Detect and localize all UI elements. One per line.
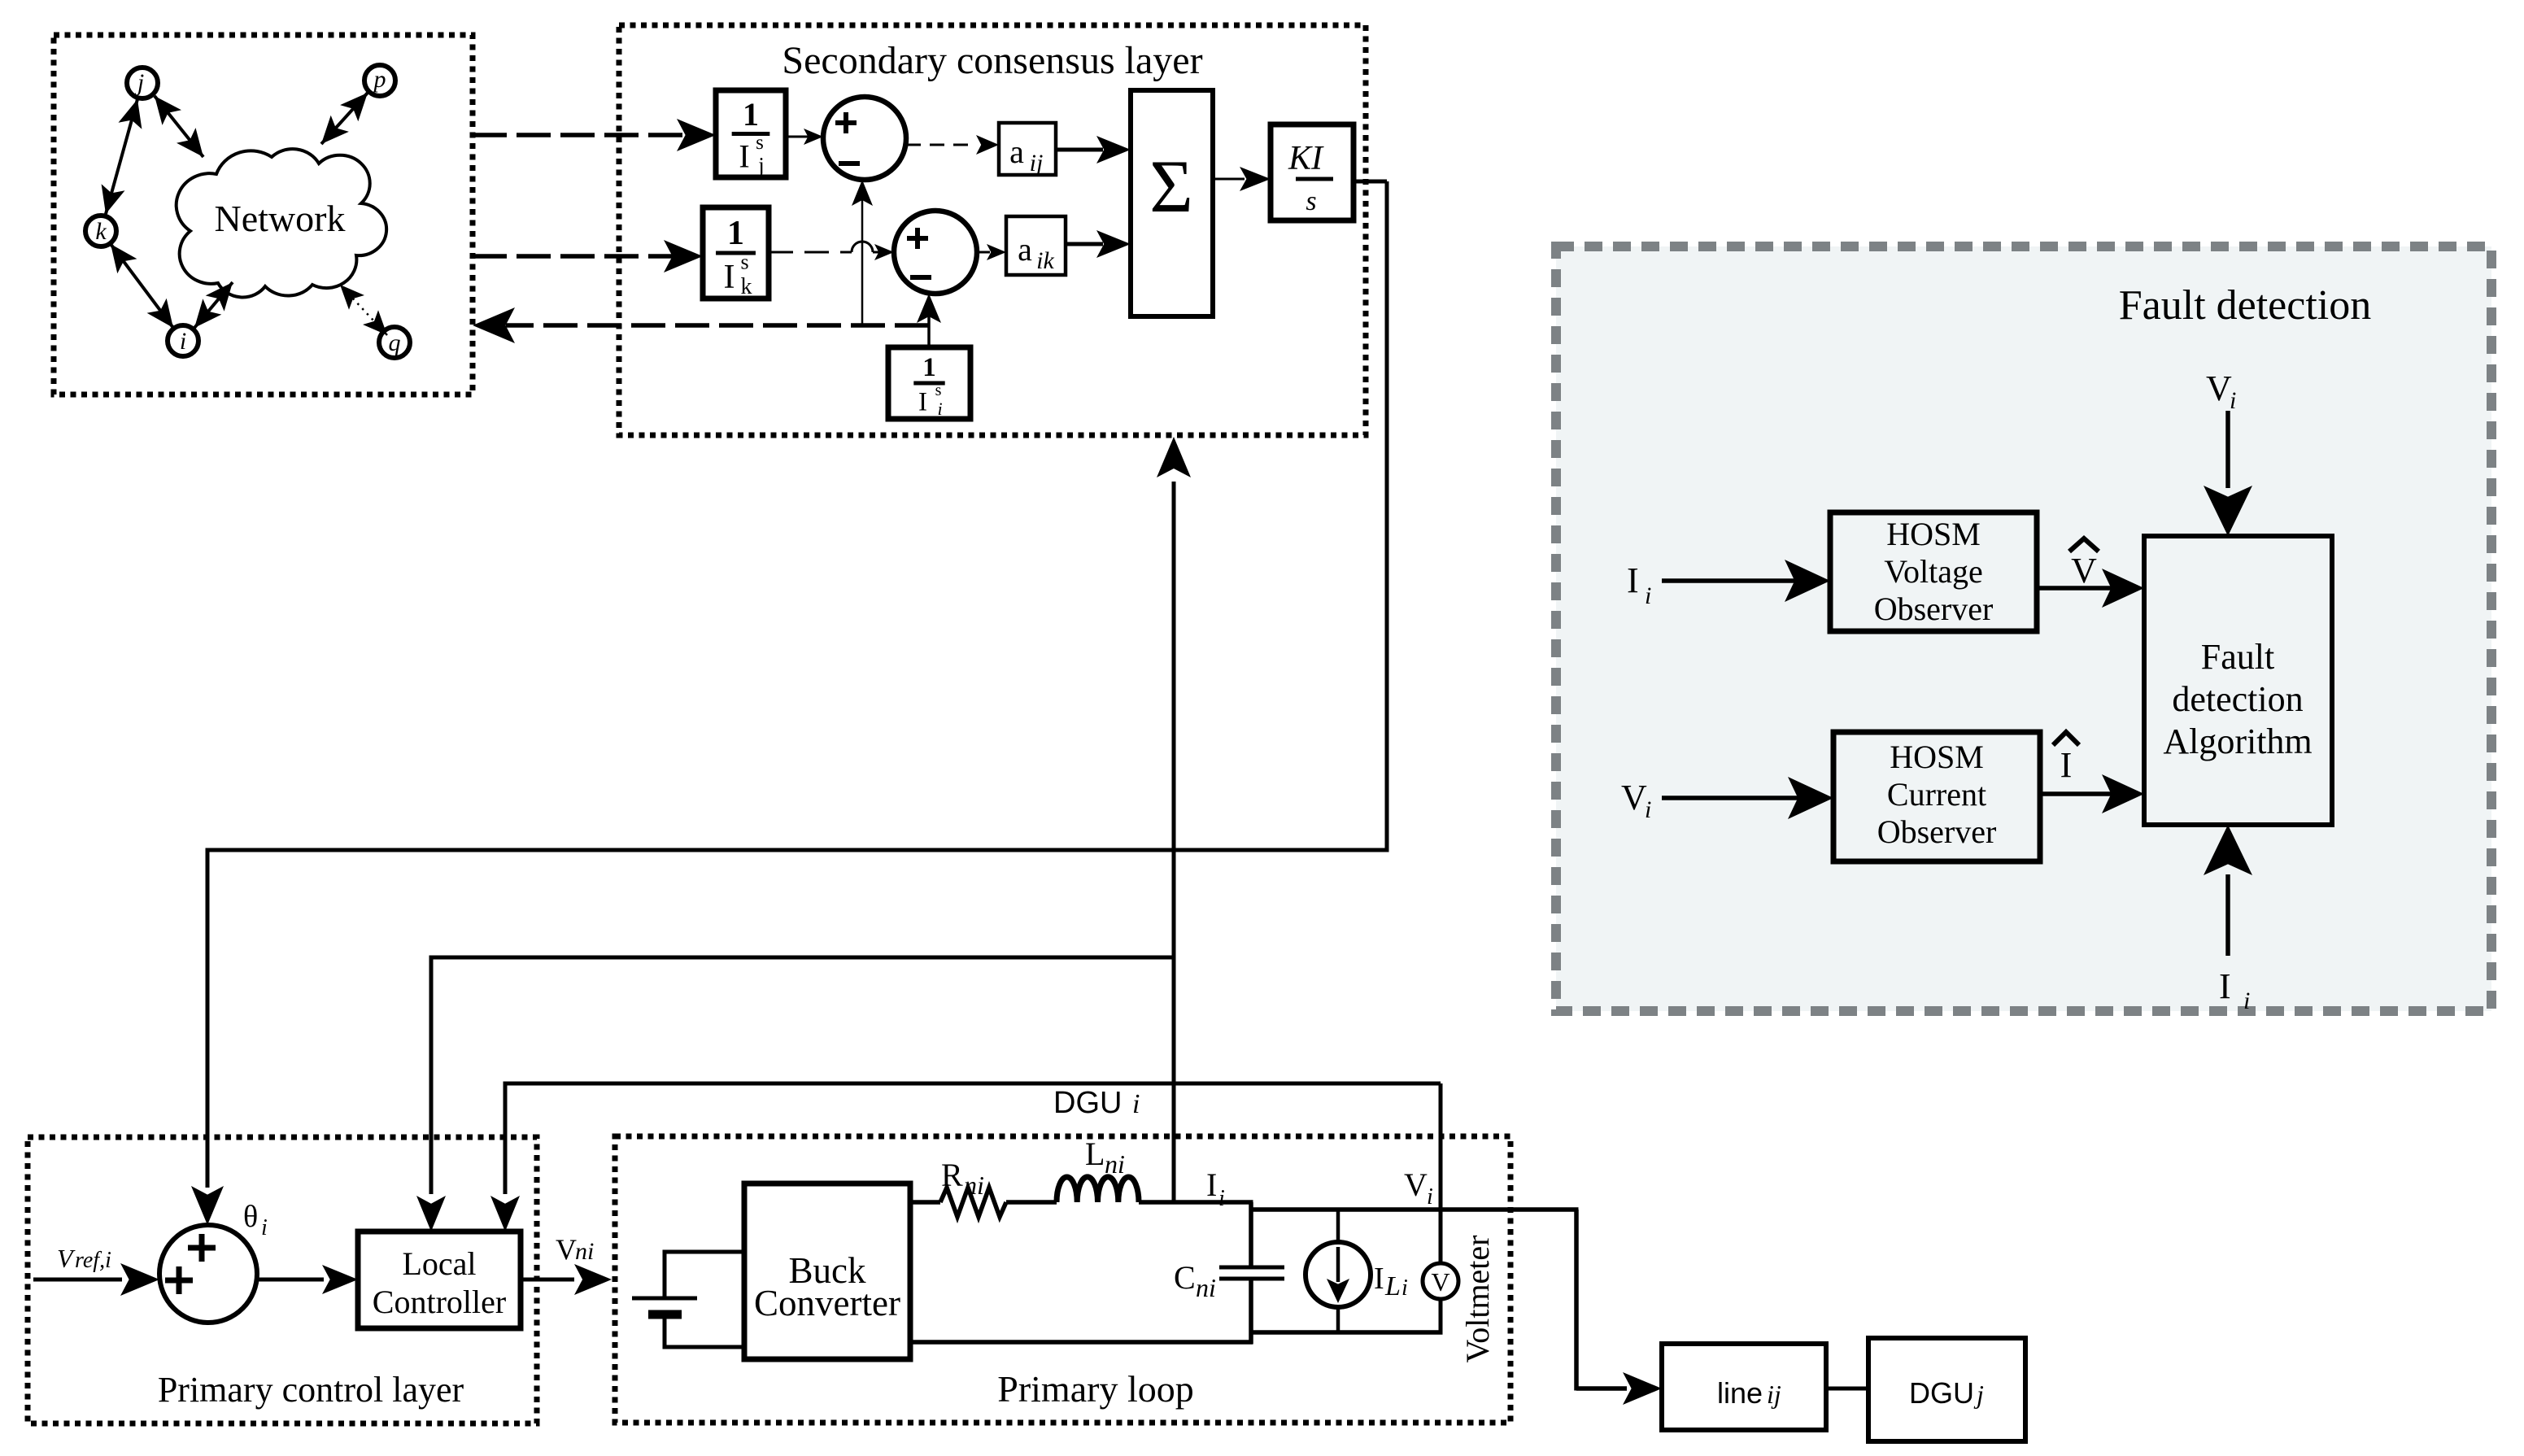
svg-text:i: i xyxy=(1645,796,1651,823)
wire feedback vertical right xyxy=(1385,181,1389,850)
svg-text:Σ: Σ xyxy=(1149,145,1193,228)
dashed wire network to 1/Ijs xyxy=(473,133,688,137)
wire capacitor branch lower xyxy=(1249,1280,1253,1345)
svg-text:θ: θ xyxy=(243,1200,258,1234)
wire Vi down to line ij xyxy=(1574,1210,1579,1391)
wire resistor to inductor xyxy=(1006,1200,1057,1205)
HOSM current observer U2 xyxy=(1833,732,2040,861)
svg-text:R: R xyxy=(941,1157,963,1193)
svg-text:Local: Local xyxy=(402,1245,476,1282)
svg-text:I: I xyxy=(1206,1166,1217,1203)
wire down into local controller 1 xyxy=(429,956,434,1195)
block 1/Ij^s xyxy=(716,90,786,177)
svg-text:Fault detection: Fault detection xyxy=(2119,282,2371,329)
svg-text:C: C xyxy=(1174,1259,1196,1296)
svg-text:I: I xyxy=(724,259,735,296)
svg-text:V: V xyxy=(1621,778,1647,817)
node q xyxy=(379,327,410,358)
wire feedback horizontal xyxy=(206,848,1389,852)
primary loop box xyxy=(615,1136,1510,1423)
wire battery top to buck xyxy=(663,1250,667,1299)
svg-text:i: i xyxy=(180,328,186,355)
dashed wire S2 to a_ik xyxy=(977,251,997,254)
wire 1/Iis up to S2 minus xyxy=(927,314,931,347)
wire inductor to node Ii xyxy=(1139,1200,1253,1205)
capacitor Cni xyxy=(1219,1266,1284,1270)
svg-text:L: L xyxy=(1085,1136,1105,1172)
wire Vi output horizontal xyxy=(1249,1207,1579,1212)
wire capacitor branch upper xyxy=(1249,1202,1253,1266)
gain a_ij xyxy=(999,123,1056,175)
svg-text:Secondary consensus layer: Secondary consensus layer xyxy=(782,39,1202,82)
svg-text:i: i xyxy=(937,399,942,419)
svg-text:I: I xyxy=(1374,1262,1384,1296)
svg-text:Controller: Controller xyxy=(373,1284,506,1320)
svg-text:ni: ni xyxy=(1105,1149,1125,1179)
svg-text:s: s xyxy=(756,132,764,154)
wire Vi sense vertical to voltmeter xyxy=(1439,1083,1443,1263)
wire Ii bottom into algorithm xyxy=(2225,874,2230,956)
wire Vi to current observer xyxy=(1662,796,1804,800)
node p xyxy=(364,65,395,96)
svg-text:1: 1 xyxy=(922,353,936,382)
svg-text:V: V xyxy=(2206,368,2232,408)
wire Vni output xyxy=(521,1278,574,1282)
local controller block xyxy=(358,1231,521,1328)
wire current observer to algorithm xyxy=(2040,791,2115,796)
wire sigma to KI/s xyxy=(1213,178,1245,181)
link j-cloud xyxy=(155,96,203,157)
gain a_ik xyxy=(1006,216,1066,275)
svg-text:V: V xyxy=(2071,551,2097,591)
svg-text:I: I xyxy=(739,137,749,174)
svg-text:KI: KI xyxy=(1288,140,1324,177)
resistor Rni xyxy=(940,1188,1006,1217)
svg-text:Primary control layer: Primary control layer xyxy=(158,1370,464,1410)
link i-cloud xyxy=(194,282,233,328)
svg-text:s: s xyxy=(935,381,942,399)
wire bottom left (buck to capacitor) xyxy=(910,1340,1253,1345)
wire Vi sense horizontal xyxy=(505,1082,1441,1086)
wire theta-consensus horizontal xyxy=(431,956,1174,960)
svg-text:j: j xyxy=(757,153,765,177)
svg-text:V: V xyxy=(556,1233,577,1266)
wire down into local controller 2 xyxy=(503,1082,508,1195)
svg-text:HOSM: HOSM xyxy=(1890,739,1984,775)
svg-text:ij: ij xyxy=(1030,150,1044,177)
summing junction S3 xyxy=(159,1225,257,1323)
secondary consensus layer box xyxy=(619,25,1366,435)
svg-text:s: s xyxy=(1306,186,1316,216)
dashed wire S1 to a_ij xyxy=(906,144,976,146)
svg-text:i: i xyxy=(261,1215,268,1240)
primary control layer box xyxy=(28,1137,537,1423)
wire S3 to local controller xyxy=(257,1278,324,1282)
dashed wire network to 1/Iks xyxy=(473,254,675,259)
dashed return wire secondary to network xyxy=(506,323,929,328)
svg-text:i: i xyxy=(2243,987,2250,1014)
svg-text:a: a xyxy=(1018,231,1032,268)
wire battery bottom to buck xyxy=(663,1314,667,1349)
link k-i xyxy=(111,244,173,328)
wire return line up to S1 minus xyxy=(861,200,864,325)
svg-text:i: i xyxy=(1218,1186,1225,1211)
svg-text:i: i xyxy=(2230,387,2236,414)
svg-text:Observer: Observer xyxy=(1874,591,1994,627)
svg-text:Voltmeter: Voltmeter xyxy=(1459,1235,1496,1362)
svg-text:Observer: Observer xyxy=(1877,813,1997,850)
svg-text:k: k xyxy=(741,274,752,299)
svg-text:I: I xyxy=(918,388,927,417)
svg-text:HOSM: HOSM xyxy=(1886,516,1981,552)
block 1/Ii^s xyxy=(888,347,970,419)
link k-j xyxy=(106,99,137,214)
svg-text:ni: ni xyxy=(575,1238,594,1265)
svg-text:1: 1 xyxy=(727,215,744,252)
wire Ii measurement vertical xyxy=(1172,482,1176,1202)
wire Vi top into algorithm xyxy=(2225,411,2230,488)
svg-text:ik: ik xyxy=(1036,247,1054,274)
node k xyxy=(85,216,116,246)
voltmeter xyxy=(1423,1263,1458,1299)
svg-text:L: L xyxy=(1384,1271,1401,1301)
wire feedback down to S3 xyxy=(206,848,210,1188)
svg-text:V: V xyxy=(1404,1166,1428,1203)
dashed wire 1/Iks to S2 with line hop xyxy=(769,251,852,254)
wire a_ij to sigma xyxy=(1056,148,1103,152)
wire voltmeter to bottom xyxy=(1439,1299,1443,1335)
fault detection algorithm block U3 xyxy=(2144,536,2332,825)
svg-text:Algorithm: Algorithm xyxy=(2163,721,2312,761)
svg-text:ni: ni xyxy=(964,1170,984,1200)
wire current source branch bottom xyxy=(1336,1307,1340,1332)
summing junction S1 xyxy=(823,97,906,180)
svg-text:DGU: DGU xyxy=(1053,1086,1122,1120)
fault detection box xyxy=(1556,246,2491,1011)
block line ij xyxy=(1662,1344,1826,1430)
link p-cloud xyxy=(321,93,368,144)
svg-text:k: k xyxy=(95,218,107,245)
svg-text:I: I xyxy=(1627,560,1639,600)
svg-text:s: s xyxy=(740,250,748,273)
svg-text:Current: Current xyxy=(1887,776,1986,813)
svg-text:i: i xyxy=(1645,582,1651,609)
block 1/Ik^s xyxy=(703,207,769,299)
wire current source branch top xyxy=(1336,1210,1340,1242)
svg-text:ij: ij xyxy=(1767,1380,1781,1409)
wire voltage observer to algorithm xyxy=(2037,586,2115,591)
wire line ij to DGU j xyxy=(1826,1387,1868,1391)
HOSM voltage observer U1 xyxy=(1830,512,2037,631)
block DGU j xyxy=(1868,1338,2025,1441)
svg-text:1: 1 xyxy=(743,96,759,133)
integrator KI/s xyxy=(1271,124,1354,220)
sum block sigma xyxy=(1131,90,1213,316)
svg-text:Primary loop: Primary loop xyxy=(997,1368,1193,1410)
node i xyxy=(168,325,198,356)
wire buck to resistor xyxy=(910,1200,940,1205)
battery xyxy=(632,1297,697,1301)
q-cloud dotted shaft xyxy=(340,285,387,335)
wire 1/Ijs to S1 xyxy=(786,136,817,138)
summing junction S2 xyxy=(894,211,977,294)
network box xyxy=(54,35,473,395)
wire Vref into S3 xyxy=(33,1278,122,1282)
wire bottom right (capacitor to voltmeter) xyxy=(1249,1330,1443,1335)
svg-text:I: I xyxy=(2219,966,2231,1006)
wire KI/s output stub xyxy=(1354,180,1387,184)
svg-text:i: i xyxy=(1132,1089,1140,1119)
inductor Lni xyxy=(1057,1177,1139,1202)
svg-text:i: i xyxy=(1427,1184,1433,1210)
svg-text:q: q xyxy=(389,329,401,356)
svg-text:ni: ni xyxy=(1196,1273,1216,1302)
wire Ii to voltage observer xyxy=(1662,578,1802,583)
svg-text:DGU: DGU xyxy=(1909,1376,1974,1410)
wire a_ik to sigma xyxy=(1066,242,1103,246)
svg-text:Fault: Fault xyxy=(2201,637,2274,677)
svg-text:ref,i: ref,i xyxy=(75,1248,111,1273)
svg-text:Converter: Converter xyxy=(754,1283,900,1323)
svg-text:detection: detection xyxy=(2172,679,2303,719)
svg-text:Voltage: Voltage xyxy=(1884,553,1982,590)
svg-text:V: V xyxy=(1431,1267,1449,1297)
svg-text:I: I xyxy=(2060,745,2073,785)
svg-text:Network: Network xyxy=(215,198,346,239)
current source ILi xyxy=(1306,1242,1371,1307)
cloud Network xyxy=(177,149,386,297)
buck converter block xyxy=(744,1184,910,1359)
svg-text:p: p xyxy=(373,66,386,93)
node j xyxy=(127,68,158,98)
svg-text:i: i xyxy=(1401,1275,1408,1301)
svg-text:a: a xyxy=(1009,133,1024,170)
svg-text:line: line xyxy=(1717,1376,1763,1410)
